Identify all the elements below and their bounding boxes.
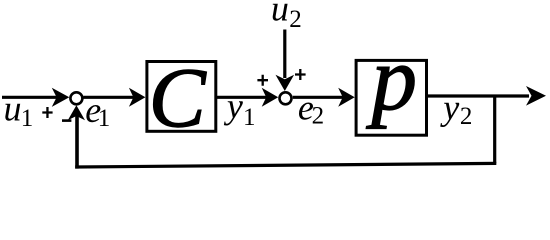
wire S1 to block C <box>84 96 136 99</box>
arrowhead feedback into S1 <box>68 105 85 120</box>
svg-text:2: 2 <box>289 6 302 33</box>
arrowhead into summing junction S1 <box>52 88 70 107</box>
arrowhead into block P <box>338 88 355 107</box>
svg-text:u: u <box>4 89 22 129</box>
plus sign left at S2 <box>257 75 268 86</box>
wire P to output <box>428 94 529 97</box>
svg-text:u: u <box>271 0 289 29</box>
wire u2 vertical <box>283 30 286 79</box>
block P box <box>356 60 426 135</box>
svg-text:2: 2 <box>460 103 473 130</box>
wire C to summing junction S2 <box>217 96 267 99</box>
arrowhead u2 into S2 <box>276 75 295 91</box>
svg-text:1: 1 <box>243 104 256 131</box>
arrowhead output y2 <box>526 86 546 106</box>
block C box <box>147 62 216 132</box>
wire feedback right vertical <box>493 96 496 163</box>
svg-text:C: C <box>149 51 207 145</box>
svg-text:y: y <box>224 86 243 126</box>
wire S2 to block P <box>293 96 344 99</box>
plus sign right at S2 <box>295 69 306 80</box>
svg-text:1: 1 <box>21 105 34 132</box>
svg-text:2: 2 <box>312 103 325 130</box>
wire feedback bottom horizontal <box>75 163 496 167</box>
arrowhead into summing junction S2 <box>262 88 279 107</box>
wire feedback left vertical <box>75 112 79 169</box>
arrowhead into block C <box>129 88 146 107</box>
summing junction S1 <box>70 92 82 104</box>
plus sign at S1 <box>42 107 52 118</box>
summing junction S2 <box>280 92 292 104</box>
svg-text:y: y <box>440 87 459 127</box>
wire input u1 <box>2 96 57 99</box>
minus sign at S1 <box>62 119 71 122</box>
svg-text:1: 1 <box>98 105 111 132</box>
svg-text:p: p <box>366 28 418 129</box>
